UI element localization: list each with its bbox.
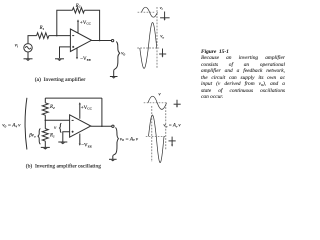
svg-text:−VEE: −VEE — [80, 57, 91, 62]
svg-text:R2: R2 — [75, 4, 81, 9]
svg-text:vo = Av v: vo = Av v — [120, 136, 139, 142]
svg-text:R1: R1 — [49, 134, 55, 139]
svg-text:βvo: βvo — [28, 133, 36, 138]
svg-text:vo = Av v: vo = Av v — [2, 122, 21, 128]
svg-text:vi: vi — [160, 5, 163, 11]
svg-text:vo = Av v: vo = Av v — [163, 124, 181, 129]
svg-text:vo: vo — [121, 51, 125, 57]
svg-text:−VEE: −VEE — [81, 143, 92, 148]
svg-text:v: v — [54, 125, 57, 131]
svg-text:(b) Inverting amplifier oscil: (b) Inverting amplifier oscillating — [26, 163, 101, 170]
svg-text:+VCC: +VCC — [80, 21, 92, 26]
svg-text:+VCC: +VCC — [81, 106, 93, 111]
svg-text:(a) Inverting amplifier: (a) Inverting amplifier — [35, 76, 86, 83]
svg-text:v: v — [158, 92, 161, 97]
svg-text:vi: vi — [15, 42, 18, 48]
svg-text:vo: vo — [160, 35, 164, 40]
svg-text:R2: R2 — [49, 105, 55, 110]
svg-text:R1: R1 — [39, 26, 45, 31]
